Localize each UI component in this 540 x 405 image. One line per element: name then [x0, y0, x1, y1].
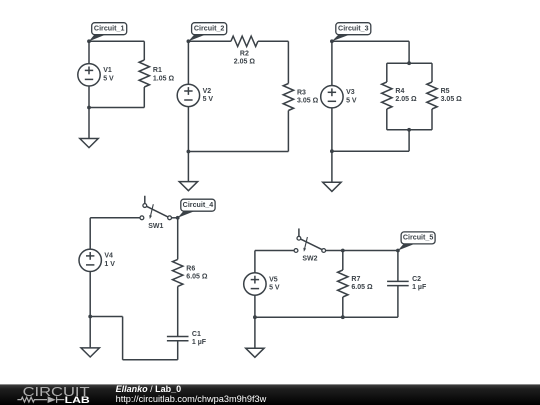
switch SW2 — [294, 228, 326, 262]
ground circuit 3 — [323, 151, 341, 191]
wire bottom rail circuit 5 — [255, 316, 398, 318]
node junction top-left circuit 3 — [330, 39, 334, 43]
svg-text:SW2: SW2 — [302, 256, 317, 263]
node label flag Circuit_1 — [89, 23, 127, 42]
svg-text:V3: V3 — [346, 89, 355, 96]
svg-text:3.05 Ω: 3.05 Ω — [441, 96, 463, 103]
svg-text:1 µF: 1 µF — [412, 284, 427, 291]
resistor R5 3.05 ohm — [427, 63, 462, 130]
node label flag Circuit_3 — [332, 23, 371, 42]
svg-text:Circuit_5: Circuit_5 — [403, 235, 434, 242]
svg-text:6.05 Ω: 6.05 Ω — [351, 284, 373, 291]
svg-text:V1: V1 — [103, 67, 112, 74]
svg-text:C2: C2 — [412, 276, 421, 283]
wire bottom rail circuit 2 — [188, 151, 288, 153]
resistor R1 1.05 ohm — [139, 41, 174, 107]
wire top rail circuit 1 — [89, 40, 144, 42]
svg-text:3.05 Ω: 3.05 Ω — [297, 98, 319, 105]
ground circuit 2 — [179, 152, 197, 191]
wire right drop circuit 3 — [408, 41, 410, 63]
svg-text:LAB: LAB — [65, 395, 90, 405]
resistor R6 6.05 ohm — [173, 218, 208, 337]
wire parallel top circuit 3 — [387, 62, 432, 64]
node label flag Circuit_4 — [178, 199, 215, 218]
svg-text:2.05 Ω: 2.05 Ω — [234, 58, 256, 65]
svg-text:Circuit_3: Circuit_3 — [338, 26, 369, 33]
svg-text:1 V: 1 V — [104, 261, 115, 268]
svg-text:2.05 Ω: 2.05 Ω — [395, 96, 417, 103]
node junction bottom-left circuit 2 — [187, 150, 191, 154]
svg-text:Ellanko / Lab_0: Ellanko / Lab_0 — [116, 384, 182, 394]
svg-text:C1: C1 — [192, 331, 201, 338]
node label flag Circuit_5 — [398, 232, 435, 251]
resistor R4 2.05 ohm — [382, 63, 417, 130]
svg-text:5 V: 5 V — [103, 75, 114, 82]
svg-text:R6: R6 — [186, 265, 195, 272]
svg-text:V4: V4 — [104, 253, 113, 260]
voltage source V2 5 V — [177, 41, 213, 151]
wire to ground node circuit 4 — [90, 316, 122, 318]
ground circuit 4 — [81, 317, 99, 358]
node junction bottom-left circuit 1 — [87, 106, 91, 110]
node junction bottom-left circuit 5 — [253, 315, 257, 319]
wire top-left circuit 5 — [255, 250, 294, 252]
node junction top-left circuit 2 — [187, 39, 191, 43]
svg-text:R7: R7 — [351, 276, 360, 283]
wire top-left circuit 2 — [188, 40, 231, 42]
wire top rail circuit 3 — [332, 40, 409, 42]
node junction R7 bottom circuit 5 — [341, 315, 345, 319]
svg-text:5 V: 5 V — [346, 97, 357, 104]
svg-text:R5: R5 — [441, 88, 450, 95]
svg-text:V5: V5 — [269, 276, 278, 283]
capacitor C1 1 uF — [167, 331, 207, 360]
svg-text:Circuit_2: Circuit_2 — [194, 26, 225, 33]
node junction bottom-left circuit 3 — [330, 149, 334, 153]
node junction top-right circuit 5 — [396, 249, 400, 253]
wire bottom rail circuit 1 — [89, 107, 144, 109]
svg-text:1 µF: 1 µF — [192, 339, 207, 346]
CircuitLab logo diode symbol — [48, 396, 56, 403]
resistor R3 3.05 ohm — [283, 41, 318, 151]
svg-text:Circuit_1: Circuit_1 — [94, 26, 125, 33]
svg-text:http://circuitlab.com/chwpa3m9: http://circuitlab.com/chwpa3m9h9f3w — [116, 394, 267, 404]
svg-text:R3: R3 — [297, 89, 306, 96]
wire switch common to C2 circuit 5 — [326, 250, 398, 252]
node junction parallel bottom circuit 3 — [407, 128, 411, 132]
svg-text:5 V: 5 V — [269, 285, 280, 292]
resistor R2 2.05 ohm — [231, 36, 258, 65]
wire switch common to node circuit 4 — [172, 217, 178, 219]
svg-text:R4: R4 — [395, 88, 404, 95]
node junction R7 top circuit 5 — [341, 249, 345, 253]
wire top rail circuit 4 — [90, 217, 140, 219]
voltage source V1 5 V — [78, 41, 114, 107]
wire top-right circuit 2 — [258, 40, 289, 42]
svg-text:Circuit_4: Circuit_4 — [183, 202, 214, 209]
svg-text:1.05 Ω: 1.05 Ω — [153, 75, 175, 82]
svg-text:5 V: 5 V — [203, 96, 214, 103]
node label flag Circuit_2 — [188, 23, 226, 42]
CircuitLab logo resistor squiggle wire — [17, 397, 64, 403]
wire parallel bottom circuit 3 — [387, 129, 432, 131]
ground circuit 1 — [80, 108, 98, 148]
voltage source V4 1 V — [79, 218, 115, 317]
capacitor C2 1 uF — [387, 251, 427, 318]
voltage source V5 5 V — [244, 251, 280, 318]
node junction top-right circuit 4 — [176, 216, 180, 220]
svg-text:R1: R1 — [153, 67, 162, 74]
svg-text:R2: R2 — [240, 50, 249, 57]
wire bottom circuit 4 — [123, 359, 178, 361]
node junction bottom-left circuit 4 — [88, 315, 92, 319]
resistor R7 6.05 ohm — [338, 251, 373, 318]
voltage source V3 5 V — [321, 41, 357, 151]
ground circuit 5 — [246, 317, 264, 357]
node junction parallel top circuit 3 — [407, 61, 411, 65]
wire bottom-left riser circuit 4 — [122, 317, 124, 360]
wire bottom rail circuit 3 — [332, 150, 409, 152]
svg-text:SW1: SW1 — [148, 223, 163, 230]
node junction top-left circuit 1 — [87, 39, 91, 43]
svg-text:V2: V2 — [203, 88, 212, 95]
svg-text:6.05 Ω: 6.05 Ω — [186, 274, 208, 281]
wire bottom drop circuit 3 — [408, 130, 410, 151]
switch SW1 — [140, 196, 172, 230]
